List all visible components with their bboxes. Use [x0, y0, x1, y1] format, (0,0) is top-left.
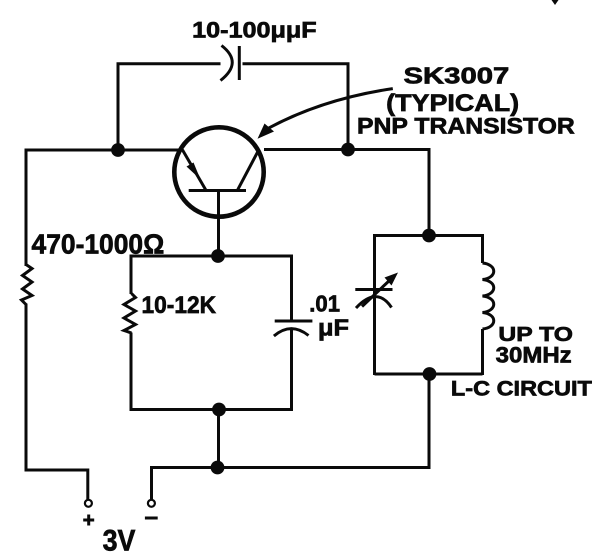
wire: mid box left lower	[130, 333, 133, 412]
variable capacitor C3 lower plate	[356, 297, 392, 308]
node: junction dot right rail	[341, 143, 355, 157]
wire: LC box right upper	[481, 234, 484, 263]
terminal + circle	[85, 500, 92, 507]
transistor Q1 body circle	[174, 127, 263, 216]
variable capacitor C3 arrowhead	[385, 273, 399, 286]
wire: collector rail to LC	[264, 150, 429, 236]
wire: mid box top	[131, 255, 292, 258]
transistor Q1 collector line	[238, 151, 258, 189]
wire: LC box bottom	[375, 373, 483, 376]
svg-text:10-12K: 10-12K	[142, 292, 217, 319]
resistor R1 470-1000 ohm zigzag	[22, 265, 33, 305]
svg-text:30MHz: 30MHz	[496, 343, 572, 368]
transistor Q1 emitter arrowhead	[187, 163, 201, 180]
wire: box bottom to ground rail	[217, 410, 220, 468]
minus sign	[145, 517, 158, 520]
resistor R2 10-12K zigzag	[124, 294, 136, 334]
callout arrowhead	[258, 124, 275, 139]
wire: left branch vertical (bottom) and corner to + terminal	[26, 304, 88, 500]
capacitor C2 straight plate	[275, 320, 313, 323]
node: box bottom dot	[212, 403, 226, 417]
wire: mid box right lower	[290, 330, 293, 411]
node: box top dot	[211, 249, 225, 263]
wire: left branch vertical (top)	[25, 149, 28, 267]
wire: mid box left upper	[130, 255, 133, 295]
node: LC top dot	[422, 229, 436, 243]
fragment arrowhead top right	[552, 0, 559, 5]
wire: base lead down	[217, 191, 220, 257]
wire: LC box top	[375, 234, 483, 237]
svg-text:.01: .01	[309, 291, 340, 317]
wire: mid box right upper	[290, 255, 293, 320]
transistor Q1 base bar	[189, 189, 246, 192]
node: ground rail dot	[211, 461, 225, 475]
capacitor C2 curved plate	[274, 329, 309, 336]
svg-text:3V: 3V	[103, 524, 136, 556]
svg-text:SK3007: SK3007	[404, 63, 510, 89]
variable capacitor C3 upper plate	[355, 288, 392, 291]
capacitor C1 curved plate	[221, 46, 233, 81]
wire: top emitter rail	[26, 149, 183, 152]
svg-text:L-C CIRCUIT: L-C CIRCUIT	[451, 378, 592, 401]
node: junction dot left rail	[111, 143, 125, 157]
svg-text:μF: μF	[318, 315, 349, 341]
svg-text:PNP TRANSISTOR: PNP TRANSISTOR	[357, 114, 575, 139]
terminal - circle	[148, 500, 155, 507]
wire: mid box bottom	[131, 408, 292, 411]
wire: LC box left upper	[373, 234, 376, 375]
variable capacitor C3 arrow line	[362, 279, 391, 307]
capacitor C1 straight plate	[238, 46, 241, 80]
node: LC bottom dot	[423, 367, 437, 381]
svg-text:10-100μμF: 10-100μμF	[192, 18, 317, 43]
wire: top feedback loop left side	[118, 64, 221, 151]
wire: top feedback loop right side	[243, 64, 349, 148]
wire: LC to ground rail and rail to - terminal	[152, 374, 430, 500]
wire: LC box right lower	[481, 329, 484, 375]
inductor L1 coil	[483, 263, 494, 329]
callout arrow to transistor	[267, 89, 393, 129]
transistor Q1 emitter line	[182, 150, 205, 190]
plus sign	[83, 515, 94, 526]
